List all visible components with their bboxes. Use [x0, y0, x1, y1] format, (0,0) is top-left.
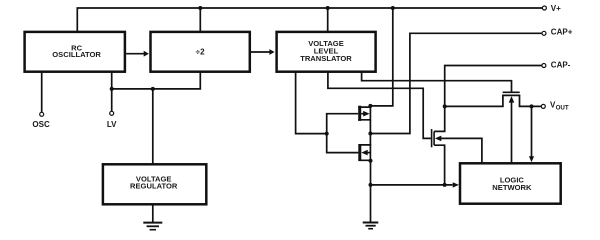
node CAP- / S4 source junction	[443, 104, 447, 108]
wire ground bus to logic network	[371, 184, 453, 186]
wire OSC lead	[41, 72, 43, 113]
ground (main)	[363, 222, 379, 224]
transistor Q4 (S4, output switch)	[503, 91, 520, 93]
node S3 source junction	[443, 183, 447, 187]
svg-text:NETWORK: NETWORK	[492, 183, 532, 192]
svg-text:OUT: OUT	[556, 105, 569, 112]
wire S1 source to S2 drain	[369, 120, 371, 145]
wire translator output to S1/S2 gates	[296, 72, 327, 134]
wire V+ drop to S1 drain	[370, 8, 392, 106]
wire V+ top rail	[77, 8, 542, 32]
wire S3 source lead	[434, 145, 445, 185]
node ground bus junction	[369, 183, 373, 187]
wire S2 gate branch	[327, 134, 359, 153]
block voltage level translator	[277, 32, 376, 72]
node LV junction	[110, 87, 114, 91]
node gate tree junction	[325, 132, 329, 136]
arrow div2 to translator	[251, 51, 270, 53]
terminal LV	[110, 111, 114, 115]
wire regulator feed	[152, 89, 154, 164]
wire LV bus to div2 bottom	[112, 72, 201, 89]
node S2 source corner	[369, 159, 373, 163]
svg-text:TRANSLATOR: TRANSLATOR	[300, 54, 352, 63]
svg-text:OSCILLATOR: OSCILLATOR	[52, 50, 101, 59]
wire S4 body from logic network	[511, 99, 513, 164]
node CAP+ junction	[368, 132, 372, 136]
wire VOUT to logic network	[531, 106, 533, 157]
wire S4 drain lead to VOUT	[520, 95, 542, 106]
transistor Q2 (S2, N-channel, CAP+ to GND)	[358, 145, 370, 160]
terminal V+	[542, 6, 546, 10]
wire CAP- net	[434, 66, 542, 132]
block voltage regulator	[103, 164, 206, 204]
wire S3 body to logic network	[440, 138, 482, 163]
node rail/S1-drain junction	[391, 6, 395, 10]
ground (voltage regulator)	[152, 204, 154, 222]
block RC oscillator	[25, 32, 125, 72]
node S1 drain junction	[368, 104, 372, 108]
block divide-by-2	[151, 32, 250, 72]
wire S1 gate branch	[327, 114, 359, 134]
svg-text:LV: LV	[107, 120, 117, 129]
wire LV lead	[111, 72, 113, 112]
node rail/translator junction	[326, 6, 330, 10]
wire S2 source to ground	[370, 160, 372, 222]
terminal CAP+	[542, 31, 546, 35]
wire S4 source lead to CAP-	[445, 95, 503, 106]
terminal OSC	[40, 112, 44, 116]
terminal CAP-	[542, 64, 546, 68]
svg-text:OSC: OSC	[32, 120, 50, 129]
svg-text:REGULATOR: REGULATOR	[130, 182, 178, 191]
terminal VOUT	[541, 104, 545, 108]
wire div2 top lead	[199, 8, 201, 32]
svg-text:CAP+: CAP+	[551, 27, 573, 36]
node rail/div2 junction	[198, 6, 202, 10]
transistor Q3 (S3, N-channel)	[431, 129, 433, 147]
wire translator output H2 to S3 gate	[328, 72, 431, 139]
svg-text:V+: V+	[551, 4, 561, 13]
wire CAP+ net	[370, 33, 542, 133]
svg-text:CAP-: CAP-	[551, 60, 571, 69]
svg-text:÷2: ÷2	[196, 48, 205, 57]
arrow RC oscillator to div2	[126, 53, 144, 55]
block logic network	[460, 163, 561, 203]
node VOUT junction	[530, 104, 534, 108]
wire translator output H1 to S4 gate	[362, 72, 512, 92]
node regulator feed junction	[151, 87, 155, 91]
transistor Q1 (S1, P-channel, V+ to CAP+)	[358, 106, 370, 120]
wire translator top lead	[327, 8, 329, 32]
